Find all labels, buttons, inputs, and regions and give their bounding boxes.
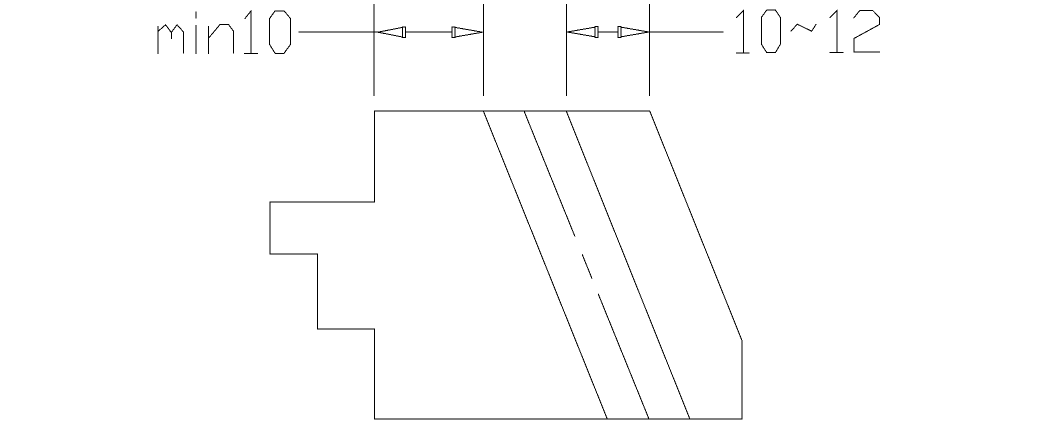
dimension 2 right arrowhead bbox=[618, 27, 621, 38]
extension line E3 bbox=[566, 5, 568, 96]
text min10 digit 1 bbox=[245, 11, 258, 54]
dimension 1 leader line from text min10 bbox=[299, 31, 378, 33]
text 10~12 digit 1 bbox=[736, 11, 749, 54]
centerline B (dash-dot diagonal seam) bbox=[524, 111, 649, 419]
extension line E2 bbox=[482, 5, 484, 96]
text 10~12 digit 2 bbox=[854, 10, 880, 52]
dimension 1 left arrowhead bbox=[378, 27, 402, 37]
text 10~12 tilde bbox=[791, 24, 816, 31]
dimension 2 leader line to text 10~12 bbox=[650, 31, 724, 33]
profile outline (board cross-section) bbox=[270, 111, 742, 419]
dimension 1 right arrowhead bbox=[452, 27, 455, 38]
text 10~12 digit 0 bbox=[761, 10, 780, 53]
dimension 2 left arrowhead bbox=[567, 27, 595, 37]
dimension 2 middle segment bbox=[598, 31, 618, 33]
text 10~12 digit 1 (second) bbox=[830, 10, 843, 52]
text min10 letter i bbox=[195, 12, 197, 53]
glue line A (left solid diagonal) bbox=[483, 111, 607, 419]
text min10 digit 0 bbox=[270, 11, 291, 54]
text min10 letter m bbox=[158, 25, 184, 54]
extension line E1 bbox=[373, 5, 375, 96]
text min10 letter n bbox=[208, 24, 233, 53]
dimension 1 middle segment bbox=[405, 31, 452, 33]
extension line E4 bbox=[649, 5, 651, 96]
glue line D (right solid diagonal) bbox=[566, 111, 690, 419]
